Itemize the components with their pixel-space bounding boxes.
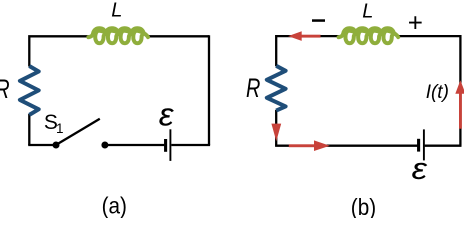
resistor R (b)	[267, 66, 286, 111]
wire: (a) bottom-left (corner to switch left dot)	[28, 144, 56, 146]
label (b)	[351, 194, 376, 220]
wire: (a) bottom-right (battery to corner)	[171, 144, 210, 146]
resistor R (a)	[20, 66, 39, 115]
wire: (b) bottom-right (battery to corner)	[425, 145, 462, 147]
svg-text:L: L	[362, 0, 373, 22]
switch S1 right contact dot	[101, 142, 108, 149]
wire: (a) left side + top-left segment	[29, 36, 89, 66]
svg-text:I(t): I(t)	[426, 82, 449, 103]
wire: (a) left side below resistor	[28, 114, 30, 145]
inductor L coil (a)	[88, 28, 148, 43]
current arrow down (left wire)	[271, 124, 281, 142]
battery (b): short plate	[417, 139, 420, 152]
svg-text:+: +	[408, 7, 423, 37]
svg-text:1: 1	[56, 121, 64, 136]
battery (b): long plate	[423, 129, 425, 160]
wire: (b) top-right segment	[398, 35, 460, 37]
svg-text:(a): (a)	[102, 192, 127, 218]
svg-text:(b): (b)	[351, 194, 376, 218]
switch S1 left contact dot	[53, 142, 60, 149]
label (a)	[102, 192, 127, 218]
wire: (b) left side below resistor	[275, 110, 277, 146]
switch S1 arm	[58, 119, 100, 144]
label EMF epsilon (a)	[159, 96, 174, 132]
wire: (b) bottom-left (corner to battery)	[275, 145, 417, 147]
svg-text:R: R	[246, 73, 260, 102]
current arrow left (top wire)	[288, 31, 320, 41]
label R (a)	[0, 74, 10, 103]
wire: (a) bottom-mid (switch right dot to battery)	[105, 144, 164, 146]
svg-text:ε: ε	[159, 96, 174, 132]
battery (a): short plate	[164, 139, 167, 152]
inductor L coil (b)	[339, 28, 399, 43]
label EMF epsilon (b)	[412, 151, 428, 186]
svg-text:R: R	[0, 74, 10, 103]
wire: (a) right side	[208, 35, 210, 145]
wire: (b) left side + top-left segment	[276, 36, 339, 66]
wire: (b) right side	[459, 35, 461, 146]
current arrow up I(t) (right wire)	[455, 80, 464, 128]
wire: (a) top-right segment	[148, 35, 209, 37]
battery (a): long plate	[169, 129, 171, 161]
svg-text:ε: ε	[412, 151, 428, 186]
label R (b)	[246, 73, 260, 102]
label minus polarity	[312, 19, 325, 22]
current arrow right (bottom wire)	[289, 140, 330, 151]
svg-text:L: L	[111, 0, 122, 21]
